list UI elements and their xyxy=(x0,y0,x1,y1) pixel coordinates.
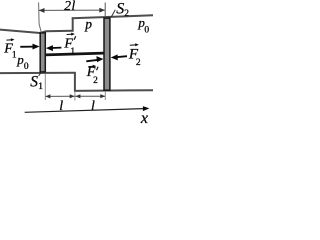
wire: top wall of wide left cylinder xyxy=(0,30,73,33)
svg-text:0: 0 xyxy=(24,62,29,72)
wire: bottom wall of wide left cylinder xyxy=(0,72,76,74)
dimension line l (left span) xyxy=(46,95,75,97)
svg-text:2: 2 xyxy=(124,9,129,19)
svg-text:2: 2 xyxy=(136,58,141,68)
svg-text:1: 1 xyxy=(70,47,75,57)
wire: bottom wall of right cylinder xyxy=(74,89,153,92)
dimension 2l: right extension tick xyxy=(104,3,106,18)
arrowhead left of dim l1 xyxy=(46,94,51,98)
svg-text:2: 2 xyxy=(93,76,98,86)
svg-text:l: l xyxy=(59,99,63,114)
x axis arrowhead xyxy=(143,106,150,111)
dimension 2l: line xyxy=(39,9,105,11)
label F1' with vector hat xyxy=(63,33,75,58)
svg-text:S: S xyxy=(116,1,124,18)
svg-text:x: x xyxy=(140,110,148,126)
force F1 arrow (pointing right at left piston) xyxy=(20,44,39,50)
connecting rod between pistons xyxy=(46,53,104,55)
leader line for S1 xyxy=(39,72,42,76)
leader line for S2 xyxy=(111,10,115,17)
arrowhead left of dim l2 xyxy=(76,94,81,98)
piston 1 (left, in wide tube) xyxy=(40,33,45,72)
x axis line xyxy=(25,109,144,113)
svg-text:1: 1 xyxy=(12,50,17,60)
dimension l (left): extension line A below left piston xyxy=(44,74,46,101)
svg-text:0: 0 xyxy=(144,26,149,36)
force F2 arrow (pointing left at right piston) xyxy=(111,54,127,60)
dimension 2l: left extension line down to piston xyxy=(39,3,42,33)
arrowhead right of dim l1 xyxy=(70,94,75,98)
arrowhead right of dim l2 xyxy=(100,94,105,98)
piston 2 (right, in narrow tube) xyxy=(104,18,110,90)
svg-text:l: l xyxy=(91,99,95,114)
svg-text:2l: 2l xyxy=(64,0,76,13)
force F2' arrow (pointing right at right piston) xyxy=(86,56,103,62)
wire: step wall upper (between S1 and S2 sections) xyxy=(72,17,74,31)
dimension line l (right span) xyxy=(75,95,105,97)
dimension extension line C below right piston xyxy=(104,91,106,100)
label F2 with vector hat xyxy=(128,43,141,68)
svg-text:p: p xyxy=(84,16,92,31)
force F1' arrow (pointing left at left piston) xyxy=(46,45,62,51)
svg-text:1: 1 xyxy=(38,82,43,92)
label F2' with vector hat xyxy=(86,65,98,86)
dimension 2l: left arrowhead xyxy=(39,8,45,13)
dimension 2l: right arrowhead xyxy=(99,8,105,13)
svg-text:S: S xyxy=(30,73,38,90)
dimension extension line B below step xyxy=(74,92,76,101)
label F1 with vector hat xyxy=(3,38,17,60)
wire: step wall lower xyxy=(74,72,76,92)
wire: top wall of right cylinder S2 xyxy=(72,15,153,18)
